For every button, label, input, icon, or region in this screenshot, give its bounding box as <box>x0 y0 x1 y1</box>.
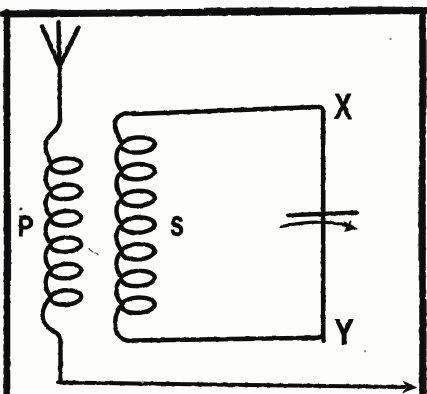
variable capacitor arrow arc <box>282 222 349 226</box>
inductor S (secondary coil) <box>115 113 155 341</box>
variable capacitor plate <box>289 213 358 216</box>
arrowhead bottom wire <box>404 381 417 392</box>
wire bottom with arrow <box>58 383 404 388</box>
wire S top to X corner, down right side, to Y corner, back to S bottom <box>133 107 323 341</box>
arrowhead of variable capacitor <box>344 222 357 232</box>
svg-text:X: X <box>335 87 353 127</box>
wire Y corner spur <box>321 334 325 341</box>
wire antenna to P coil <box>57 64 62 122</box>
inductor P (primary coil) <box>43 120 82 381</box>
border frame left <box>4 12 11 394</box>
border frame right <box>419 12 426 394</box>
svg-text:P: P <box>18 210 34 243</box>
svg-text:Y: Y <box>335 311 354 352</box>
antenna <box>42 23 79 70</box>
svg-text:S: S <box>171 211 184 242</box>
border frame top <box>3 11 427 15</box>
speck artifacts <box>89 249 98 255</box>
